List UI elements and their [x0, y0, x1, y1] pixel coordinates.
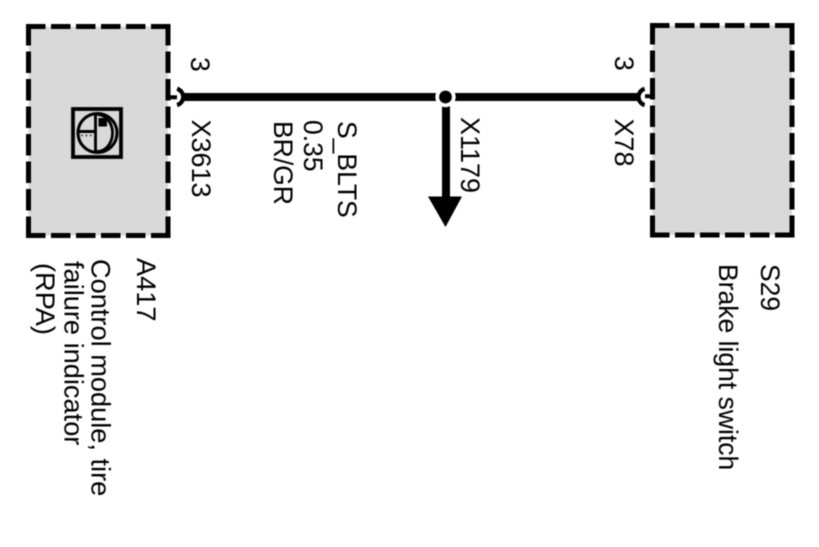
connector label X3613 [186, 120, 216, 198]
pin 3 of X78 [609, 56, 639, 71]
svg-text:0.35: 0.35 [298, 120, 328, 172]
connector socket X3613 pin stub [166, 95, 177, 99]
connector socket X78 cup [639, 89, 645, 105]
svg-text:failure indicator: failure indicator [59, 261, 90, 445]
pin 3 of X3613 [185, 57, 215, 72]
designator S29 [755, 264, 785, 311]
brake light switch S29 box [650, 23, 795, 238]
svg-text:(RPA): (RPA) [30, 263, 61, 335]
wire label 0.35 [298, 120, 328, 172]
svg-text:BR/GR: BR/GR [268, 121, 298, 205]
connector socket X3613 cup [177, 89, 183, 105]
RPA tire failure indicator symbol [73, 109, 121, 157]
svg-text:S29: S29 [755, 264, 785, 311]
svg-text:A417: A417 [131, 258, 162, 322]
svg-text:X1179: X1179 [455, 117, 485, 193]
label Brake light switch [713, 264, 743, 470]
designator A417 [131, 258, 162, 322]
svg-text:S_BLTS: S_BLTS [332, 121, 362, 218]
node X1179 junction dot [435, 87, 455, 107]
wire S_BLTS 0.35 BR/GR [184, 93, 637, 101]
wire stub to X1179 with arrow [428, 104, 462, 227]
svg-text:Brake light switch: Brake light switch [713, 264, 743, 470]
connector label X78 [609, 119, 639, 167]
control module A417 box [26, 24, 171, 238]
svg-text:X78: X78 [609, 119, 639, 167]
wire label BR/GR [268, 121, 298, 205]
node label X1179 [455, 117, 485, 193]
connector socket X78 pin stub [645, 94, 652, 98]
svg-text:3: 3 [185, 57, 215, 72]
svg-text:3: 3 [609, 56, 639, 71]
label Control module, tire failure indicator (RPA) [30, 259, 117, 496]
wire label S_BLTS [332, 121, 362, 218]
svg-text:X3613: X3613 [186, 120, 216, 198]
